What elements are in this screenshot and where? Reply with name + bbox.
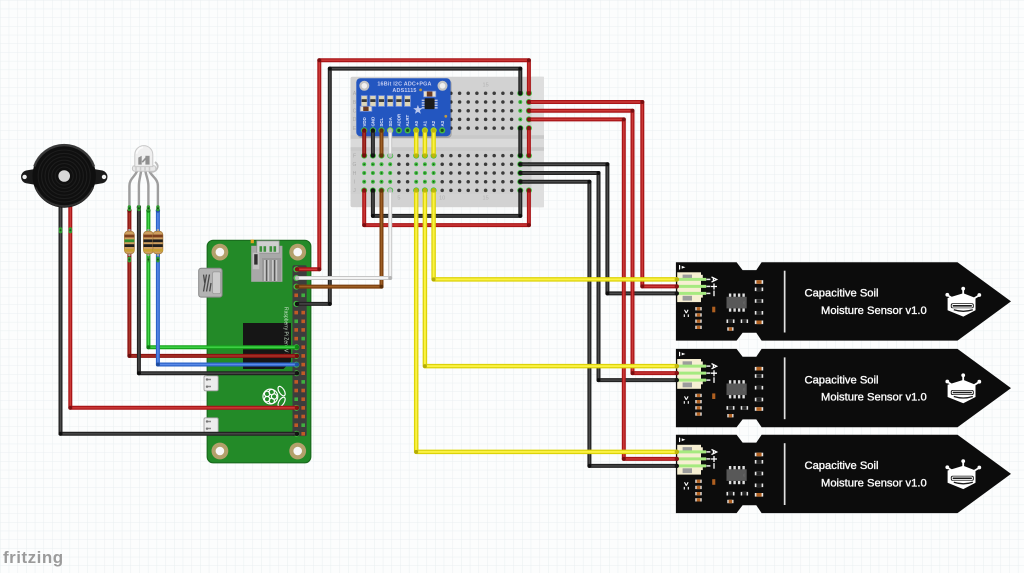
svg-text:Raspberry Pi Zero V 2: Raspberry Pi Zero V 2 — [282, 307, 288, 357]
wire red rowC20 to sensor2 VCC pin — [527, 109, 679, 376]
svg-text:15: 15 — [483, 196, 489, 202]
buzzer body — [32, 144, 95, 207]
op-amp/ADC breakout U1 ADS1115 — [356, 78, 452, 138]
resistor R2 (green leg) — [144, 227, 154, 257]
mounting ear right — [91, 169, 108, 186]
wire white SDA jumper — [388, 128, 392, 158]
svg-text:F: F — [353, 153, 356, 159]
capacitors C1-C6 — [361, 95, 411, 107]
mounting hole BL — [212, 443, 229, 460]
wire yellow A0 to sensor3 AOUT — [414, 188, 679, 454]
svg-text:G: G — [353, 162, 357, 168]
svg-text:SCL: SCL — [379, 117, 384, 126]
wire white SDA to Pi pin3 — [295, 188, 393, 280]
wire black colJ19 to colJ2 rail — [371, 188, 523, 218]
svg-text:ALRT: ALRT — [405, 114, 410, 126]
pin 10 A3 — [439, 127, 445, 133]
wire black rowH19 to sensor2 GND pin — [518, 171, 679, 382]
wire red Pi-5V to breadboard colA20 — [295, 58, 531, 271]
wire yellow A2 to sensor1 AOUT — [431, 188, 679, 281]
mini USB power connector — [199, 268, 222, 297]
wire red rowB20 to sensor1 VCC pin — [527, 100, 679, 289]
wire blue LED-B to Pi pin21 — [156, 208, 299, 366]
moisture sensor U4 (bottom) — [676, 435, 1011, 513]
mounting ear left — [21, 169, 38, 186]
svg-text:Moisture Sensor v1.0: Moisture Sensor v1.0 — [821, 305, 927, 317]
svg-text:A2: A2 — [431, 120, 436, 126]
breadboard — [351, 77, 545, 208]
svg-text:A3: A3 — [440, 120, 445, 126]
wire red colJ20 to colJ1 rail — [362, 188, 531, 227]
svg-text:D: D — [353, 117, 357, 123]
wire darkred LED-R to Pi pin19 — [127, 208, 299, 358]
wire red rowD20 to sensor3 VCC pin — [527, 117, 679, 461]
wire green LED-G to Pi pin17 — [146, 208, 299, 349]
LED die — [138, 156, 149, 165]
GPIO connected-pad rings — [293, 266, 299, 437]
wire darkred VDD jumper — [362, 128, 366, 158]
pin 8 A1 — [422, 127, 428, 133]
micro USB port 1 — [204, 376, 218, 391]
wire black rowG19 to sensor1 GND pin — [518, 162, 679, 295]
breadboard connected-hole rings — [361, 90, 532, 193]
resistor lower junctions — [128, 257, 160, 263]
wire black LED cathode to Pi pin23 — [137, 205, 299, 376]
wire black GND jumper — [371, 128, 375, 158]
Raspberry Pi Zero board — [199, 240, 311, 463]
svg-text:ADDR: ADDR — [397, 113, 402, 127]
wire black bridge colE19-colF19 — [518, 126, 522, 158]
resistor R3 (blue leg) — [153, 227, 163, 257]
wire black buzzer to Pi pin39 — [58, 203, 299, 436]
svg-text:ADS1115: ADS1115 — [392, 88, 416, 94]
svg-text:5: 5 — [397, 196, 400, 202]
resistor R1 (red leg) — [125, 227, 135, 257]
wire yellow A1 to sensor2 AOUT — [423, 188, 679, 368]
RGB LED bulb — [132, 146, 157, 172]
pin 7 A0 — [413, 127, 419, 133]
svg-text:10: 10 — [439, 196, 445, 202]
pin 2 GND — [370, 127, 376, 133]
IC chip ADS1115 die — [422, 98, 438, 109]
wire black rowI19 to sensor3 GND pin — [518, 180, 679, 469]
moisture sensor U3 (middle) — [676, 349, 1011, 427]
svg-text:C: C — [353, 109, 357, 115]
microSD card slot — [251, 240, 283, 282]
mounting hole left — [359, 81, 369, 91]
pin 4 SDA — [387, 127, 393, 133]
svg-text:15: 15 — [483, 83, 489, 89]
micro USB port 2 — [204, 418, 218, 433]
wire red buzzer to Pi pin32 — [68, 203, 299, 410]
svg-text:A0: A0 — [414, 120, 419, 126]
wire yellow A1 jumper — [423, 128, 427, 158]
pin 5 ADDR — [396, 127, 402, 133]
svg-text:16Bit I2C ADC+PGA: 16Bit I2C ADC+PGA — [377, 82, 431, 88]
fiducial dots — [419, 89, 422, 92]
svg-text:H: H — [353, 171, 357, 177]
Raspberry Pi logo — [263, 385, 287, 408]
pin 9 A2 — [431, 127, 437, 133]
svg-text:fritzing: fritzing — [3, 548, 64, 567]
mounting hole right — [438, 81, 448, 91]
pin 6 ALRT — [405, 127, 411, 133]
svg-text:VDD: VDD — [362, 117, 367, 126]
wire black Pi-GND to breadboard colA19 — [295, 67, 523, 306]
piezo buzzer BZ1 — [21, 144, 107, 207]
buzzer lead junctions — [59, 227, 72, 233]
SoC chip — [243, 323, 291, 369]
svg-text:I: I — [354, 180, 355, 186]
svg-text:GND: GND — [371, 117, 376, 127]
RGB LED legs — [129, 169, 158, 212]
moisture sensor U2 (top) — [676, 262, 1011, 340]
wire brown SCL jumper — [379, 128, 383, 158]
GPIO header J8 — [293, 265, 307, 436]
wire red bridge colE20-colF20 — [527, 126, 531, 158]
resistor R-smd top-right — [423, 91, 436, 97]
pin 3 SCL — [378, 127, 384, 133]
buzzer center hole — [58, 170, 70, 182]
LED leg junctions — [128, 205, 160, 211]
svg-text:SDA: SDA — [388, 116, 393, 126]
wire yellow A2 jumper — [431, 128, 435, 158]
resistor R-smd bottom-left — [360, 106, 372, 112]
mounting hole BR — [289, 443, 306, 460]
mounting hole TL — [212, 244, 229, 261]
svg-text:A1: A1 — [423, 120, 428, 126]
mounting hole TR — [289, 244, 306, 261]
Adafruit star logo — [413, 105, 422, 114]
svg-text:Capacitive Soil: Capacitive Soil — [805, 288, 879, 300]
pin 1 VDD — [361, 127, 367, 133]
wire brown SCL to Pi pin5 — [295, 188, 384, 289]
wire yellow A0 jumper — [414, 128, 418, 158]
